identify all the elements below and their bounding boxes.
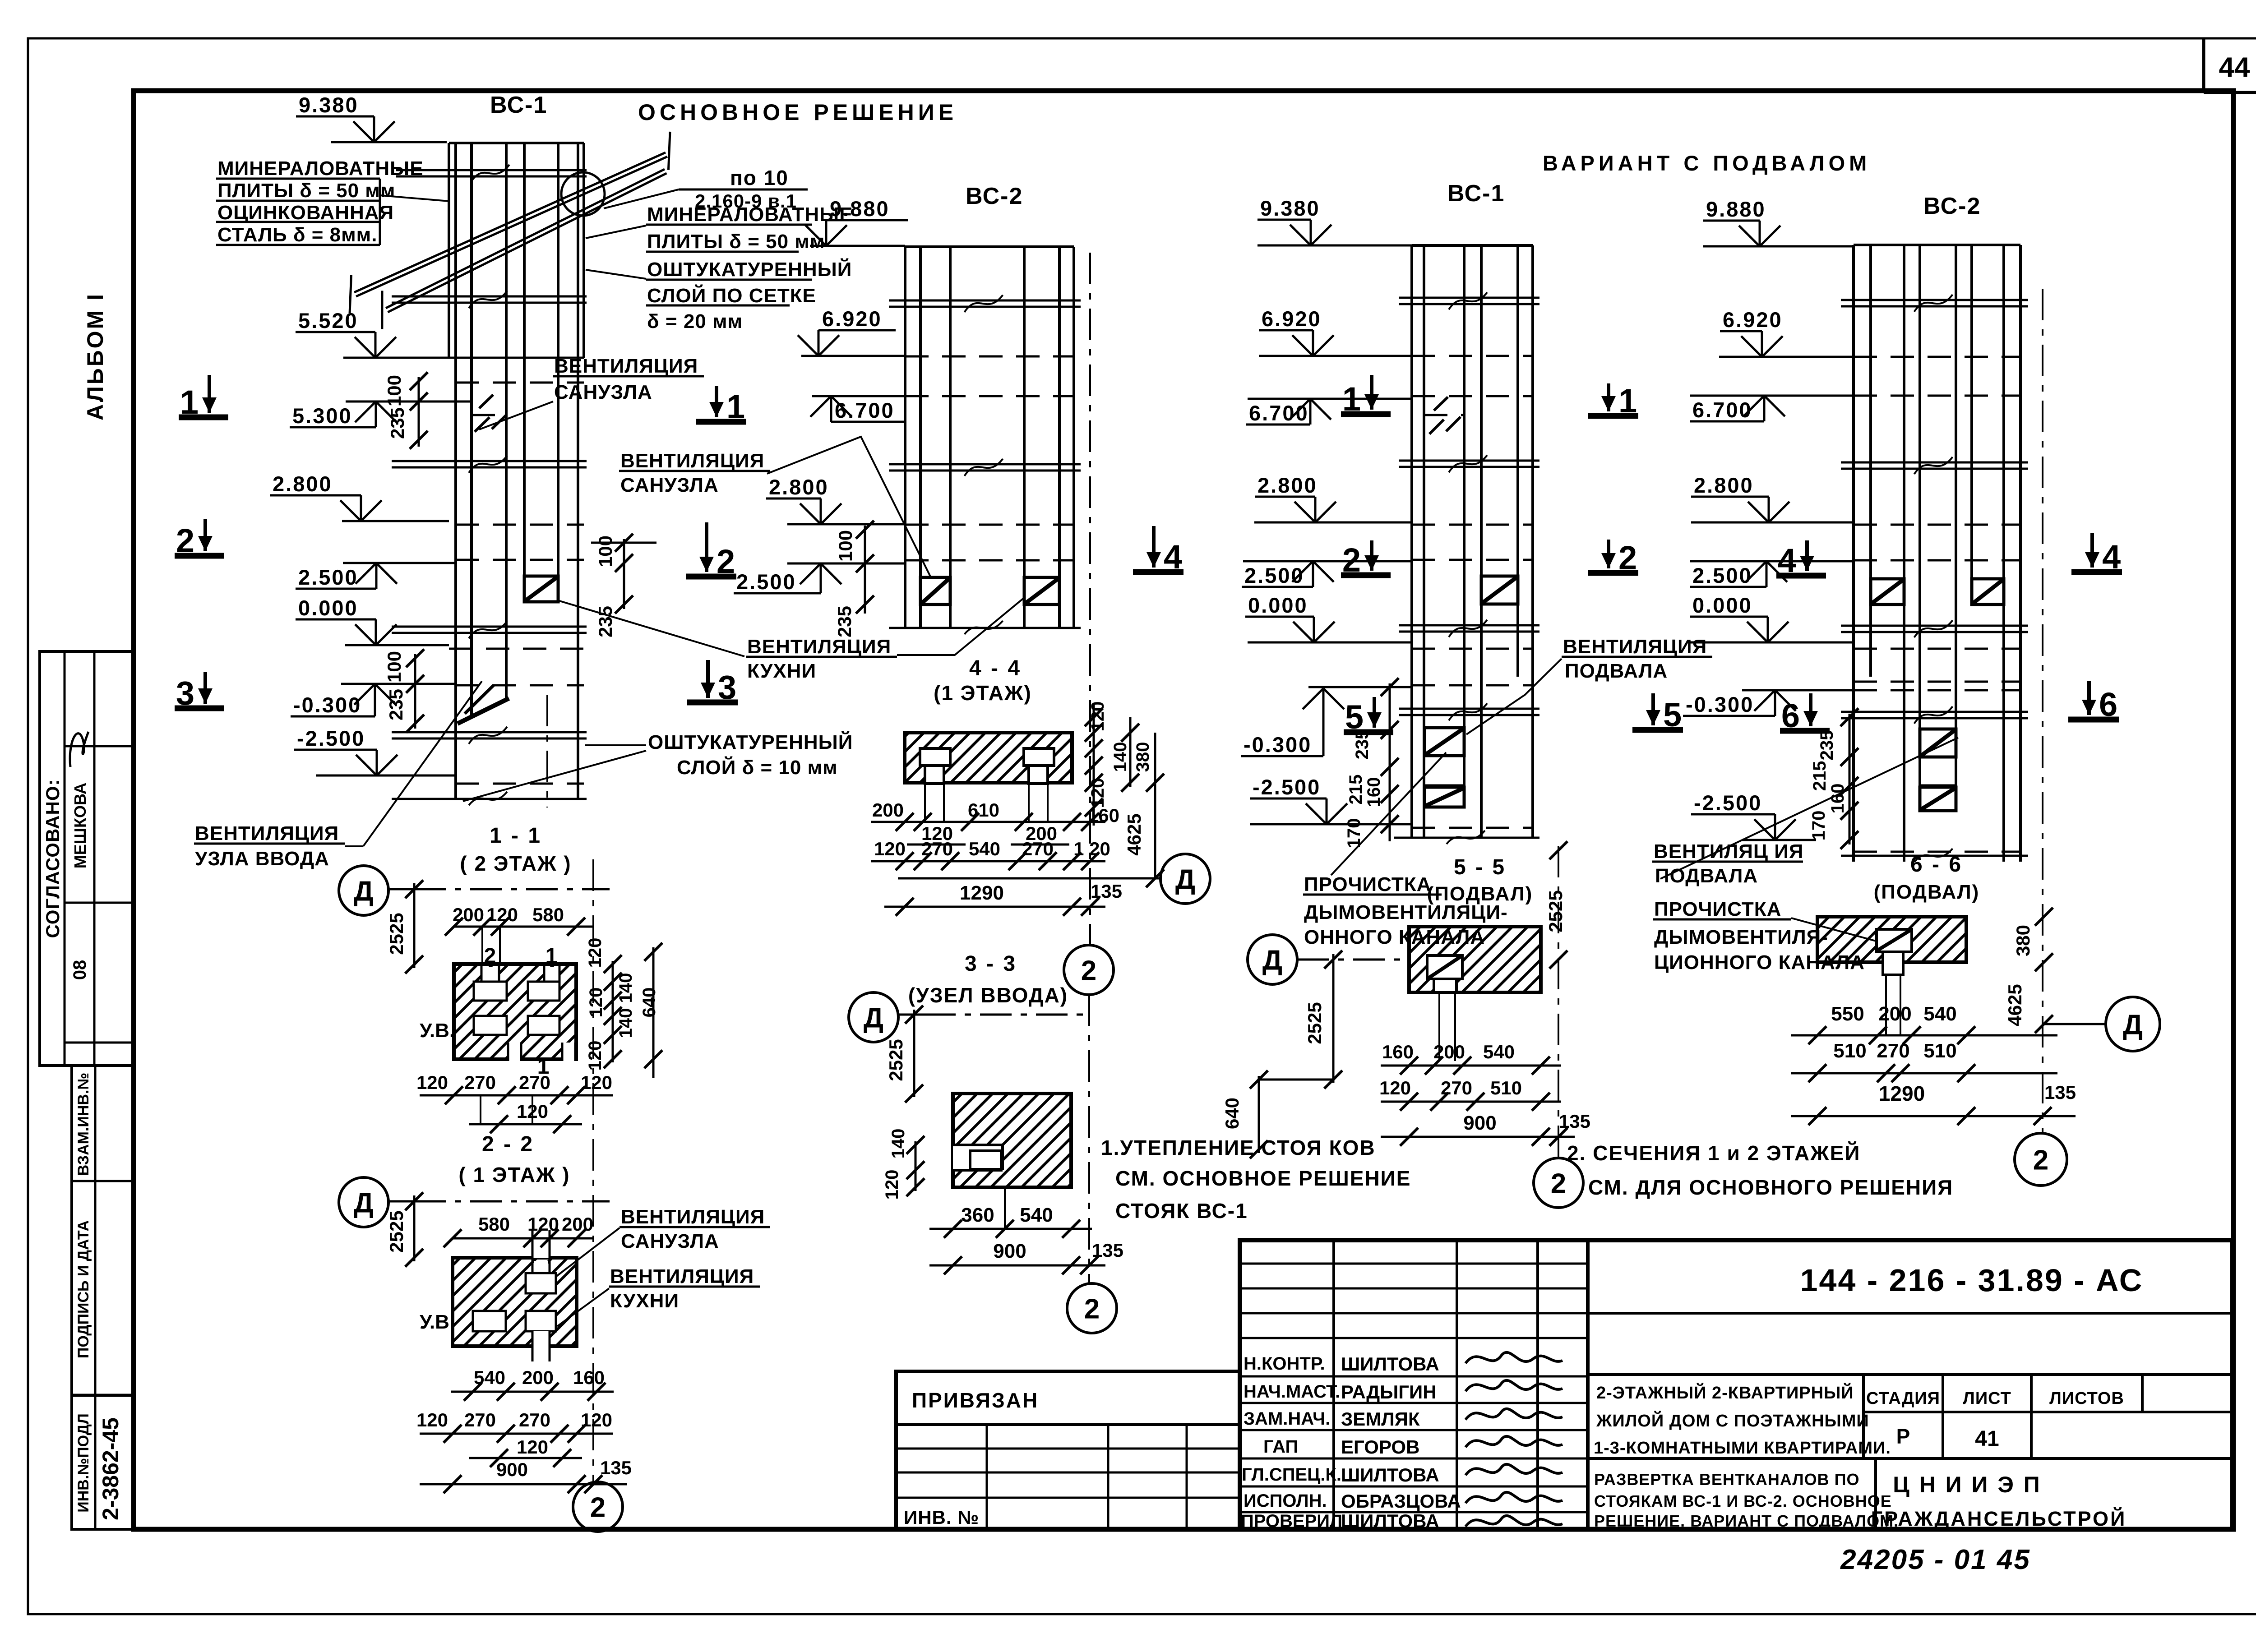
- section mark 4 (right of stack D): [2071, 533, 2122, 576]
- section 5-5 hatched block: [1409, 927, 1541, 992]
- section mark 5 (left of stack C): [1344, 697, 1393, 736]
- damper box kitchen channel (stack A, 2.500): [524, 576, 558, 602]
- svg-text:6.700: 6.700: [1692, 398, 1752, 422]
- svg-text:Р: Р: [1896, 1425, 1910, 1448]
- damper boxes (stack B bottoms): [920, 577, 1059, 605]
- svg-text:120: 120: [581, 1409, 612, 1431]
- stack VS-2 basement: dashed slab lines: [1854, 357, 2020, 852]
- section 1-1 channel numbers: [484, 944, 558, 1079]
- svg-text:9.380: 9.380: [299, 93, 359, 117]
- section 1-1 axis D circle: [339, 866, 388, 915]
- header VARIANT S PODVALOM: [1543, 151, 1871, 175]
- title block signatures: [1465, 1352, 1563, 1527]
- svg-text:2525: 2525: [386, 1210, 407, 1252]
- label 6-6 (podval): [1874, 853, 1980, 903]
- svg-text:120: 120: [585, 938, 605, 968]
- section 6-6 dims 510/270/510: [1791, 1040, 2057, 1082]
- svg-text:2: 2: [1084, 1293, 1100, 1324]
- svg-text:МЕШКОВА: МЕШКОВА: [71, 783, 89, 868]
- svg-text:2.800: 2.800: [1694, 473, 1754, 497]
- svg-text:510: 510: [1490, 1077, 1522, 1098]
- svg-text:ЛИСТОВ: ЛИСТОВ: [2049, 1389, 2124, 1408]
- svg-text:5.300: 5.300: [292, 404, 352, 428]
- svg-text:САНУЗЛА: САНУЗЛА: [621, 1230, 719, 1252]
- label ventilation kuhni (between stacks A and B): [559, 591, 1032, 682]
- svg-text:135: 135: [1559, 1111, 1590, 1132]
- svg-text:580: 580: [478, 1214, 510, 1235]
- level mark 9.380 (stack C): [1257, 196, 1331, 245]
- left margin vertical text ALBOM I: [83, 292, 108, 420]
- svg-text:СОГЛАСОВАНО:: СОГЛАСОВАНО:: [42, 779, 63, 938]
- section mark 2 (right of stack A): [686, 522, 736, 580]
- svg-text:140: 140: [616, 973, 636, 1003]
- axis circle 2 below section 3-3: [1067, 1283, 1117, 1333]
- section mark 2 (right of stack C): [1588, 539, 1638, 577]
- svg-text:4625: 4625: [1123, 813, 1145, 855]
- level mark -0.300 (stack D): [1683, 690, 1796, 716]
- svg-text:-2.500: -2.500: [297, 726, 365, 750]
- svg-text:140: 140: [888, 1129, 908, 1159]
- uzel vvoda slanted channel bottom (stack A): [458, 685, 509, 724]
- svg-text:ПРОВЕРИЛ: ПРОВЕРИЛ: [1241, 1511, 1342, 1531]
- svg-text:КУХНИ: КУХНИ: [747, 660, 816, 682]
- margin approval table (SOGLASOVANO block): [40, 651, 134, 1066]
- level mark 2.500 (stack B): [734, 563, 841, 594]
- svg-text:08: 08: [70, 960, 90, 980]
- label ventilation sanuzla (stack A): [479, 355, 704, 429]
- section mark 4 (right of stack B): [1133, 526, 1183, 576]
- svg-text:УЗЛА ВВОДА: УЗЛА ВВОДА: [195, 848, 329, 870]
- sheet number box 44: [2204, 38, 2256, 92]
- label ventilation podvala (lower, stack D): [1652, 738, 1958, 887]
- svg-text:120: 120: [517, 1101, 548, 1122]
- svg-text:120: 120: [1088, 778, 1108, 808]
- svg-text:СТОЯК ВС-1: СТОЯК ВС-1: [1115, 1199, 1248, 1223]
- svg-text:270: 270: [1441, 1077, 1472, 1098]
- svg-text:2525: 2525: [1545, 890, 1566, 932]
- open-channel dashes at 5.300 (stack A): [475, 395, 507, 432]
- level mark 9.880 (stack D): [1703, 197, 1780, 246]
- svg-text:120: 120: [517, 1436, 548, 1458]
- stack title VS-1 (main): [490, 92, 547, 118]
- svg-text:РАДЫГИН: РАДЫГИН: [1341, 1381, 1437, 1403]
- level mark 2.800 (stack D): [1691, 473, 1789, 522]
- level mark 2.500 (stack C): [1242, 561, 1334, 587]
- svg-text:380: 380: [1133, 742, 1153, 772]
- section mark 1 (left of stack A): [179, 375, 228, 421]
- stadiya list listov headers: [1866, 1389, 2124, 1451]
- section 2-2 dim 2525: [386, 1192, 423, 1267]
- svg-text:270: 270: [519, 1072, 550, 1093]
- level mark 9.380 (stack A): [296, 93, 395, 142]
- svg-text:550: 550: [1831, 1003, 1864, 1025]
- svg-text:1 20: 1 20: [1073, 838, 1110, 859]
- section mark 2 (left of stack C): [1341, 540, 1391, 579]
- svg-text:по 10: по 10: [730, 166, 789, 189]
- svg-text:СЛОЙ δ = 10 мм: СЛОЙ δ = 10 мм: [677, 756, 838, 779]
- svg-text:ВЗАМ.ИНВ.№: ВЗАМ.ИНВ.№: [75, 1073, 92, 1176]
- svg-text:-0.300: -0.300: [293, 693, 361, 717]
- svg-text:ВЕНТИЛЯЦИЯ: ВЕНТИЛЯЦИЯ: [620, 450, 764, 472]
- svg-text:ПЛИТЫ δ = 50 мм: ПЛИТЫ δ = 50 мм: [217, 180, 395, 202]
- svg-text:1.УТЕПЛЕНИЕ СТОЯ КОВ: 1.УТЕПЛЕНИЕ СТОЯ КОВ: [1101, 1136, 1376, 1159]
- stack title VS-2 (main): [966, 183, 1023, 209]
- svg-text:2.500: 2.500: [1692, 563, 1752, 587]
- roof slope double line 2: [382, 169, 667, 329]
- svg-text:ЖИЛОЙ ДОМ С ПОЭТАЖНЫМИ: ЖИЛОЙ ДОМ С ПОЭТАЖНЫМИ: [1596, 1410, 1869, 1431]
- svg-text:6.920: 6.920: [1723, 308, 1783, 332]
- svg-text:(ПОДВАЛ): (ПОДВАЛ): [1427, 883, 1533, 905]
- svg-text:380: 380: [2012, 925, 2034, 956]
- title block outer: [1240, 1240, 2233, 1529]
- svg-text:ЛИСТ: ЛИСТ: [1963, 1389, 2011, 1408]
- section 1-1 right dims 120/140/640: [585, 938, 662, 1078]
- open-channel dashes at 6.700 (stack C): [1429, 397, 1461, 434]
- section 6-6 dims 380/4625 vertical: [2004, 908, 2053, 1033]
- svg-text:900: 900: [496, 1459, 528, 1480]
- stack VS-2 main: level lines: [787, 246, 905, 563]
- svg-text:900: 900: [1463, 1112, 1496, 1134]
- svg-text:270: 270: [519, 1409, 550, 1431]
- svg-text:СМ. ДЛЯ ОСНОВНОГО РЕШЕНИЯ: СМ. ДЛЯ ОСНОВНОГО РЕШЕНИЯ: [1588, 1176, 1953, 1199]
- svg-text:135: 135: [600, 1457, 632, 1478]
- level mark 0.000 (stack D): [1690, 593, 1789, 642]
- svg-text:144 - 216 - 31.89 - АС: 144 - 216 - 31.89 - АС: [1800, 1263, 2144, 1298]
- section 4-4 axis D line and circle: [898, 854, 1210, 904]
- svg-text:(1 ЭТАЖ): (1 ЭТАЖ): [934, 681, 1032, 705]
- title block left rows: [1240, 1264, 1588, 1512]
- svg-text:2525: 2525: [386, 913, 407, 955]
- level mark 6.920 (stack D): [1720, 308, 1783, 357]
- section 6-6 channel opening with damper: [1877, 929, 1912, 1035]
- section mark 1 (left of stack C): [1341, 375, 1391, 418]
- section mark 2 (left of stack A): [175, 519, 224, 559]
- svg-text:270: 270: [464, 1072, 496, 1093]
- level mark 5.520: [296, 309, 396, 358]
- svg-text:2525: 2525: [1304, 1002, 1325, 1044]
- dim 100/235 right of 2.500 (stack A): [591, 534, 656, 637]
- svg-text:540: 540: [1020, 1204, 1053, 1226]
- svg-text:270: 270: [464, 1409, 496, 1431]
- damper box kitchen channel (stack C 2.500): [1481, 576, 1518, 604]
- section 4-4 dims 120/270/540/270/120 row: [871, 838, 1110, 870]
- svg-text:СТАЛЬ δ = 8мм.: СТАЛЬ δ = 8мм.: [217, 224, 377, 246]
- svg-text:МИНЕРАЛОВАТНЫЕ: МИНЕРАЛОВАТНЫЕ: [647, 203, 853, 226]
- section 1-1 bottom dims 120/270/270/120: [416, 1072, 613, 1133]
- svg-text:200: 200: [1433, 1041, 1465, 1062]
- label 5-5 (podval): [1427, 855, 1533, 905]
- svg-text:24205 - 01 45: 24205 - 01 45: [1840, 1544, 2031, 1575]
- svg-text:АЛЬБОМ I: АЛЬБОМ I: [83, 292, 108, 420]
- svg-text:ГЛ.СПЕЦ.К.: ГЛ.СПЕЦ.К.: [1242, 1465, 1341, 1485]
- basement channel dampers (stack C): [1424, 728, 1464, 807]
- svg-text:6.920: 6.920: [1262, 307, 1322, 331]
- level mark 6.700 (stack B): [810, 396, 906, 422]
- level mark 2.500 (stack D): [1690, 561, 1787, 587]
- svg-text:9.880: 9.880: [830, 197, 890, 221]
- svg-text:135: 135: [1092, 1240, 1123, 1261]
- svg-text:( 1 ЭТАЖ ): ( 1 ЭТАЖ ): [458, 1163, 570, 1186]
- dim 100/235 at 5.300: [384, 372, 428, 449]
- handwritten document number 24205-01 45: [1840, 1544, 2031, 1575]
- svg-text:2-ЭТАЖНЫЙ 2-КВАРТИРНЫЙ: 2-ЭТАЖНЫЙ 2-КВАРТИРНЫЙ: [1596, 1382, 1854, 1403]
- section 4-4 right dims 120/140/380/120/160: [1085, 701, 1153, 826]
- level mark 2.800 (stack A): [270, 472, 382, 521]
- level mark 6.700 (stack C): [1246, 399, 1331, 425]
- svg-text:6.920: 6.920: [822, 307, 882, 331]
- svg-text:2: 2: [590, 1492, 606, 1523]
- svg-text:ЗЕМЛЯК: ЗЕМЛЯК: [1341, 1408, 1420, 1430]
- svg-text:1290: 1290: [1879, 1082, 1925, 1105]
- svg-text:540: 540: [1483, 1041, 1515, 1062]
- svg-text:ШИЛТОВА: ШИЛТОВА: [1341, 1510, 1439, 1532]
- svg-text:6.700: 6.700: [835, 398, 895, 422]
- label prochistka dymoventilyatsionnogo kanala (5-5): [1303, 752, 1508, 948]
- title block right verticals: [1863, 1375, 2142, 1529]
- svg-text:СТОЯКАМ ВС-1 И ВС-2. ОСНОВНОЕ: СТОЯКАМ ВС-1 И ВС-2. ОСНОВНОЕ: [1594, 1492, 1892, 1510]
- svg-text:ОЦИНКОВАННАЯ: ОЦИНКОВАННАЯ: [217, 202, 394, 224]
- svg-text:2.800: 2.800: [1257, 473, 1318, 497]
- label po 10 / 2.160-9 v.1: [604, 166, 808, 212]
- margin inventory table (VZAM/PODPIS/INV block): [72, 1066, 134, 1529]
- svg-text:2-3862-45: 2-3862-45: [98, 1417, 123, 1520]
- detail circle on stack A top: [561, 172, 605, 216]
- stack VS-1 main: walls and channel lines: [449, 143, 584, 799]
- svg-text:1290: 1290: [960, 882, 1004, 904]
- svg-text:САНУЗЛА: САНУЗЛА: [554, 381, 652, 403]
- section 2-2 labels ventilation sanuzla / kuhni: [556, 1206, 770, 1326]
- svg-text:САНУЗЛА: САНУЗЛА: [620, 474, 719, 496]
- svg-text:160: 160: [1382, 1041, 1414, 1062]
- svg-text:2525: 2525: [885, 1039, 906, 1081]
- section 4-4 channel openings: [920, 748, 1054, 822]
- section mark 6 (right of stack D): [2068, 681, 2119, 723]
- svg-text:120: 120: [416, 1409, 448, 1431]
- section 2-2 dims 120/270/270/120 row: [416, 1409, 613, 1467]
- header OSNOVNOE RESHENIE: [638, 100, 957, 125]
- section 2-2 dims 900/135 row: [420, 1457, 632, 1493]
- svg-text:2: 2: [1551, 1168, 1566, 1199]
- section 2-2 horizontal axis dash-dot: [388, 1200, 610, 1203]
- level mark -0.300 (stack A): [291, 684, 396, 717]
- section 2-2 hatched block: [453, 1258, 577, 1346]
- svg-text:ОШТУКАТУРЕННЫЙ: ОШТУКАТУРЕННЫЙ: [647, 258, 852, 281]
- svg-text:ИНВ. №: ИНВ. №: [904, 1507, 979, 1528]
- project name cell: [1594, 1382, 1891, 1458]
- note 2: secheniya: [1567, 1141, 1953, 1199]
- svg-text:120: 120: [874, 838, 906, 859]
- title block signer names: [1341, 1353, 1461, 1532]
- svg-text:(УЗЕЛ ВВОДА): (УЗЕЛ ВВОДА): [908, 983, 1068, 1007]
- section 3-3 left dims 140/120: [882, 1129, 925, 1200]
- document number 144-216-31.89-AC: [1800, 1263, 2144, 1298]
- svg-text:Д: Д: [864, 1002, 883, 1034]
- svg-text:ОШТУКАТУРЕННЫЙ: ОШТУКАТУРЕННЫЙ: [648, 730, 853, 753]
- level mark 5.300: [290, 401, 397, 428]
- svg-text:(ПОДВАЛ): (ПОДВАЛ): [1874, 881, 1980, 903]
- svg-text:ДЫМОВЕНТИЛЯ-: ДЫМОВЕНТИЛЯ-: [1654, 926, 1828, 948]
- stack VS-1 basement: walls and channel lines: [1412, 245, 1533, 838]
- svg-text:-0.300: -0.300: [1244, 733, 1312, 757]
- svg-text:ГАП: ГАП: [1263, 1437, 1298, 1457]
- stack VS-2 main: walls and channel lines: [905, 247, 1074, 628]
- svg-text:215: 215: [1810, 761, 1830, 791]
- svg-text:640: 640: [1221, 1098, 1243, 1129]
- svg-text:ОБРАЗЦОВА: ОБРАЗЦОВА: [1341, 1490, 1461, 1512]
- svg-text:360: 360: [961, 1204, 994, 1226]
- level mark 6.920 (stack B): [798, 307, 896, 356]
- svg-text:41: 41: [1975, 1427, 1999, 1451]
- title block signers labels: [1241, 1354, 1342, 1531]
- svg-text:120: 120: [1088, 701, 1108, 732]
- stack VS-1 main: break lines: [392, 165, 587, 805]
- svg-text:2. СЕЧЕНИЯ 1 и 2 ЭТАЖЕЙ: 2. СЕЧЕНИЯ 1 и 2 ЭТАЖЕЙ: [1567, 1141, 1860, 1165]
- svg-text:510: 510: [1923, 1040, 1956, 1062]
- dims 235/215/160/170 (stack C basement): [1344, 678, 1399, 848]
- svg-text:200: 200: [453, 904, 484, 925]
- svg-text:235: 235: [834, 606, 855, 637]
- svg-text:-2.500: -2.500: [1694, 791, 1762, 815]
- label 3-3 (uzel vvoda): [908, 952, 1068, 1007]
- svg-text:4625: 4625: [2004, 984, 2025, 1026]
- svg-text:ПРИВЯЗАН: ПРИВЯЗАН: [912, 1389, 1039, 1412]
- dim 135 label at far left of 6-6 row: [1549, 1128, 1567, 1146]
- svg-text:ПРОЧИСТКА: ПРОЧИСТКА: [1654, 898, 1781, 920]
- svg-text:Н.КОНТР.: Н.КОНТР.: [1244, 1354, 1325, 1374]
- svg-text:СМ. ОСНОВНОЕ РЕШЕНИЕ: СМ. ОСНОВНОЕ РЕШЕНИЕ: [1115, 1167, 1411, 1190]
- svg-text:У.В.: У.В.: [420, 1020, 455, 1042]
- stack VS-2 basement: break lines: [1841, 295, 2028, 862]
- svg-text:-0.300: -0.300: [1686, 692, 1754, 716]
- axis dash-dot below stack A (uzel vvoda): [546, 695, 548, 808]
- axis line 2 through sections 1-1 / 2-2: [592, 859, 594, 1482]
- section mark 3 (right of stack A): [687, 660, 738, 706]
- svg-text:ШИЛТОВА: ШИЛТОВА: [1341, 1464, 1439, 1486]
- label 2-2 (1 etazh): [458, 1132, 570, 1186]
- svg-text:6.700: 6.700: [1249, 401, 1309, 425]
- svg-text:ПЛИТЫ δ = 50 мм: ПЛИТЫ δ = 50 мм: [647, 231, 825, 253]
- svg-text:ШИЛТОВА: ШИЛТОВА: [1341, 1353, 1439, 1375]
- svg-text:ВЕНТИЛЯЦИЯ: ВЕНТИЛЯЦИЯ: [554, 355, 698, 377]
- section 1-1 top dims 200/120/580: [445, 904, 593, 1001]
- privyazan table: [896, 1371, 1240, 1529]
- svg-text:ВЕНТИЛЯЦИЯ: ВЕНТИЛЯЦИЯ: [621, 1206, 765, 1228]
- svg-text:270: 270: [1022, 838, 1054, 859]
- svg-text:2: 2: [2033, 1144, 2048, 1176]
- level mark 2.800 (stack B): [766, 475, 841, 524]
- section 4-4 dims 120/200 row: [907, 823, 1069, 844]
- level mark -2.500 (stack D): [1691, 791, 1796, 840]
- axis circle 2 below section 4-4: [1064, 945, 1114, 995]
- section 2-2 bottom dims 540/200/160: [451, 1367, 614, 1401]
- svg-text:610: 610: [968, 799, 999, 821]
- section 4-4 bottom dims 200/610/160: [871, 799, 1105, 831]
- level mark 2.800 (stack C): [1255, 473, 1336, 522]
- svg-text:СЛОЙ ПО СЕТКЕ: СЛОЙ ПО СЕТКЕ: [647, 284, 816, 307]
- level mark 0.000 (stack C): [1245, 593, 1335, 642]
- section 4-4 dim 4625 vertical: [1123, 733, 1164, 887]
- svg-text:1-3-КОМНАТНЫМИ КВАРТИРАМИ.: 1-3-КОМНАТНЫМИ КВАРТИРАМИ.: [1594, 1439, 1891, 1458]
- basement channel dampers (stack D): [1920, 729, 1956, 811]
- svg-text:6 - 6: 6 - 6: [1910, 853, 1963, 877]
- section 3-3 dim 2525: [885, 1006, 923, 1103]
- svg-text:0.000: 0.000: [1248, 593, 1308, 617]
- section 5-5 dims 120/270/510: [1379, 1077, 1561, 1111]
- section 2-2 label U.V: [420, 1311, 449, 1333]
- svg-text:( 2 ЭТАЖ ): ( 2 ЭТАЖ ): [460, 852, 571, 875]
- svg-text:270: 270: [921, 838, 953, 859]
- label ventilation sanuzla (stack B): [619, 437, 933, 582]
- svg-text:170: 170: [1809, 811, 1829, 841]
- svg-text:2.500: 2.500: [736, 570, 796, 594]
- svg-text:ВЕНТИЛЯЦИЯ: ВЕНТИЛЯЦИЯ: [747, 636, 891, 658]
- section 3-3 bottom dims 360/540: [929, 1187, 1092, 1238]
- section mark 6 (left of stack D): [1780, 693, 1830, 734]
- svg-text:120: 120: [416, 1072, 448, 1093]
- dims 235/215/160/170 (stack D basement): [1809, 708, 1858, 849]
- svg-text:Д: Д: [354, 876, 374, 907]
- svg-text:200: 200: [522, 1367, 554, 1388]
- svg-text:ВЕНТИЛЯЦИЯ: ВЕНТИЛЯЦИЯ: [610, 1265, 754, 1287]
- svg-text:100: 100: [384, 651, 405, 683]
- label ventilation uzla vvoda: [194, 681, 482, 870]
- section 1-1 channel openings: [474, 964, 575, 1061]
- svg-text:160: 160: [573, 1367, 605, 1388]
- svg-text:-2.500: -2.500: [1253, 775, 1321, 799]
- svg-text:120: 120: [882, 1170, 902, 1200]
- svg-text:ЗАМ.НАЧ.: ЗАМ.НАЧ.: [1244, 1409, 1330, 1429]
- section 2-2 top dims 580/120/200: [444, 1214, 593, 1247]
- stack VS-1 basement: break lines: [1394, 292, 1539, 844]
- stack title VS-1 (basement variant): [1447, 180, 1505, 207]
- level mark 2.500 (stack A): [296, 563, 397, 589]
- svg-text:1 - 1: 1 - 1: [490, 824, 542, 848]
- svg-text:120: 120: [1379, 1077, 1411, 1098]
- svg-text:ВЕНТИЛЯЦ ИЯ: ВЕНТИЛЯЦ ИЯ: [1654, 840, 1804, 863]
- svg-text:ВС-1: ВС-1: [1447, 180, 1505, 207]
- svg-text:Д: Д: [1175, 864, 1195, 895]
- svg-text:120: 120: [581, 1072, 612, 1093]
- svg-text:120: 120: [586, 988, 606, 1018]
- svg-text:ВС-2: ВС-2: [1923, 193, 1981, 219]
- svg-text:СТАДИЯ: СТАДИЯ: [1866, 1389, 1940, 1408]
- svg-text:0.000: 0.000: [298, 596, 358, 620]
- svg-text:ВС-1: ВС-1: [490, 92, 547, 118]
- section 5-5 dims 2525/640 vertical: [1221, 951, 1342, 1158]
- svg-text:ПОДВАЛА: ПОДВАЛА: [1565, 660, 1668, 682]
- axis line 2 below 4-4 to 3-3: [1088, 994, 1090, 1284]
- axis line right of 5-5: [1558, 846, 1559, 1157]
- svg-text:200: 200: [872, 799, 904, 821]
- svg-text:9.380: 9.380: [1260, 196, 1320, 220]
- svg-text:ИНВ.№ПОДЛ: ИНВ.№ПОДЛ: [75, 1413, 92, 1512]
- label prochistka dymoventilya- (6-6): [1653, 898, 1879, 974]
- section 1-1 dim 2525: [386, 880, 423, 974]
- section 2-2 channel openings: [473, 1230, 556, 1361]
- svg-text:580: 580: [532, 904, 564, 925]
- svg-text:МИНЕРАЛОВАТНЫЕ: МИНЕРАЛОВАТНЫЕ: [217, 157, 424, 180]
- section mark 1 (right of stack C): [1588, 382, 1638, 420]
- label plastered layer d=10mm: [463, 730, 853, 801]
- svg-text:2.500: 2.500: [1244, 563, 1304, 587]
- svg-text:2 - 2: 2 - 2: [482, 1132, 534, 1156]
- svg-text:РАЗВЕРТКА ВЕНТКАНАЛОВ ПО: РАЗВЕРТКА ВЕНТКАНАЛОВ ПО: [1594, 1470, 1859, 1489]
- svg-text:235: 235: [595, 606, 616, 637]
- svg-text:270: 270: [1877, 1040, 1909, 1062]
- svg-text:100: 100: [595, 535, 616, 567]
- section 3-3 hatched block: [953, 1094, 1071, 1187]
- axis circle 2 below section 5-5: [1534, 1158, 1583, 1208]
